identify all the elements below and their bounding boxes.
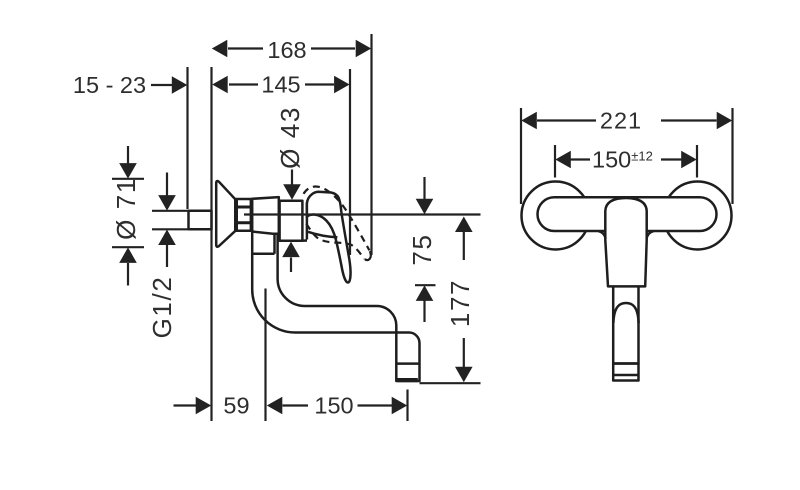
- dimension 168 line: [228, 47, 263, 49]
- arrowhead 221 right: [717, 112, 733, 130]
- arrowhead 177 down: [455, 367, 473, 383]
- aerator front bottom: [613, 364, 638, 381]
- handle base bottom: [302, 239, 307, 242]
- lever handle dashed tip: [365, 251, 371, 260]
- aerator outlet dark band: [397, 378, 418, 382]
- arrowhead dia71 down: [119, 163, 137, 179]
- inlet square stub: [189, 211, 212, 230]
- handle mount face: [306, 203, 309, 240]
- mixer body: [280, 201, 303, 241]
- boundary line square bottom: [152, 228, 190, 230]
- extension line aerator bottom (y=383.2): [420, 382, 481, 384]
- svg-text:Ø 43: Ø 43: [275, 106, 305, 169]
- svg-text:150±12: 150±12: [592, 147, 653, 173]
- svg-text:G1/2: G1/2: [147, 276, 177, 339]
- dimension 177 stems: [463, 232, 465, 260]
- extension line outlet axis (x=407.5): [406, 390, 408, 422]
- escutcheon cone: [216, 181, 236, 247]
- spout body side view: [252, 230, 419, 381]
- svg-text:Ø 71: Ø 71: [111, 177, 141, 240]
- dimension 75 stems: [423, 177, 425, 200]
- extension line spout axis horizontal (y=214.5): [244, 213, 481, 215]
- handle knob front: [605, 198, 646, 286]
- swivel collar edge: [273, 232, 276, 254]
- extension line handle tip (x=350): [349, 69, 351, 255]
- aerator front joint: [613, 362, 638, 365]
- arrowhead 75 up: [416, 285, 434, 301]
- arrowhead 150 left: [267, 397, 283, 415]
- extension line wall face (x=211.5): [210, 67, 212, 421]
- arrowhead 150 right: [392, 397, 408, 415]
- dimension 145 line: [229, 83, 258, 85]
- boundary line dia71 bottom: [112, 246, 144, 248]
- dimension dia71 stems: [127, 146, 129, 164]
- dimension G12 square stems: [166, 173, 168, 196]
- svg-text:59: 59: [223, 393, 249, 419]
- extension line wall stub left (x=187.5): [186, 67, 188, 209]
- arrowhead 168 left: [212, 40, 228, 58]
- lever handle dashed raised lower: [306, 224, 364, 259]
- front view extension lines 150: [554, 145, 556, 178]
- extension line max projection (x=371.5): [370, 34, 372, 255]
- arrowhead square down: [158, 195, 176, 211]
- aerator joint line side: [396, 362, 419, 365]
- arrowhead 15-23: [172, 76, 188, 94]
- svg-text:177: 177: [445, 279, 475, 327]
- arrowhead 145 right: [334, 76, 350, 94]
- escutcheon circle left: [522, 182, 590, 250]
- arrowhead 177 up: [455, 217, 473, 233]
- arrowhead dia71 up: [119, 247, 137, 263]
- svg-text:221: 221: [600, 108, 642, 134]
- dimension 150pm12 line: [571, 158, 591, 160]
- arrowhead square up: [158, 230, 176, 246]
- arrowhead 150pm right: [681, 151, 697, 169]
- escutcheon circle right: [664, 182, 732, 250]
- dimension 15-23 stem: [151, 84, 172, 86]
- tube-knob fillet right: [647, 231, 654, 238]
- svg-text:15 - 23: 15 - 23: [73, 72, 146, 98]
- lever handle inner line: [308, 232, 337, 238]
- dimension 59 stem: [174, 404, 197, 406]
- aerator front band: [613, 374, 638, 377]
- body tube stadium: [538, 197, 717, 231]
- lever handle solid: [307, 192, 351, 283]
- boundary line handle depth (y=285): [415, 284, 436, 286]
- svg-text:145: 145: [261, 72, 300, 98]
- swivel collar seam: [252, 253, 274, 256]
- arrowhead 75 down: [416, 199, 434, 215]
- spout bend dome front: [613, 303, 638, 323]
- boundary line square top: [152, 210, 190, 212]
- front view extension lines 221: [520, 108, 522, 204]
- union nut: [236, 199, 252, 231]
- arrowhead dia43 down: [283, 184, 301, 200]
- arrowhead 145 left: [212, 76, 228, 94]
- spout tube front: [613, 280, 638, 364]
- arrowhead dia43 up: [282, 242, 300, 258]
- arrowhead 221 left: [521, 112, 537, 130]
- connection cylinder: [252, 197, 279, 234]
- boundary line dia71 top: [112, 178, 144, 180]
- lever handle dashed raised upper: [304, 187, 370, 251]
- dimension 150 line: [283, 404, 309, 406]
- tube-knob fillet left: [599, 231, 606, 238]
- svg-text:75: 75: [407, 233, 437, 265]
- svg-text:168: 168: [267, 37, 306, 63]
- dimension 221 line: [537, 119, 596, 121]
- dimension dia43 stem: [291, 170, 293, 186]
- svg-text:150: 150: [314, 393, 353, 419]
- arrowhead 150pm left: [555, 151, 571, 169]
- arrowhead 168 right: [356, 40, 372, 58]
- arrowhead 59: [196, 397, 212, 415]
- extension line spout riser axis (x=265.5): [264, 289, 266, 422]
